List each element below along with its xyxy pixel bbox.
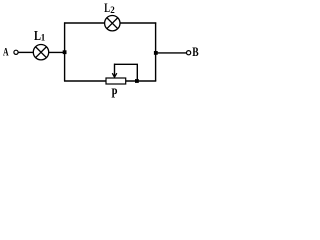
wire wiper arrow stem <box>114 64 116 77</box>
junction dot left <box>63 50 67 54</box>
wire bottom left to rheostat <box>64 80 107 82</box>
junction dot wiper <box>135 79 139 83</box>
wire L2 to top right corner <box>120 22 156 24</box>
lamp L1 <box>33 45 48 60</box>
lamp L2 <box>105 16 120 31</box>
wire left vertical branch <box>64 22 66 81</box>
wire right vertical branch <box>155 22 157 81</box>
terminal B <box>187 51 191 55</box>
wire rheostat to bottom right <box>126 80 157 82</box>
terminal A <box>14 50 18 54</box>
wire wiper top horizontal <box>114 63 138 65</box>
svg-text:A: A <box>3 45 9 59</box>
svg-text:B: B <box>192 44 199 59</box>
wire top left to L2 <box>64 22 105 24</box>
wire junction to B <box>156 52 187 54</box>
junction dot right <box>154 51 158 55</box>
wiper arrowhead <box>112 73 117 77</box>
resistor P body <box>106 78 126 84</box>
svg-text:2: 2 <box>110 5 115 15</box>
wire L1 to left junction <box>49 51 66 53</box>
svg-text:1: 1 <box>41 33 46 43</box>
wire wiper riser right <box>136 64 138 81</box>
svg-text:P: P <box>111 87 117 102</box>
wire A to L1 <box>18 51 34 53</box>
